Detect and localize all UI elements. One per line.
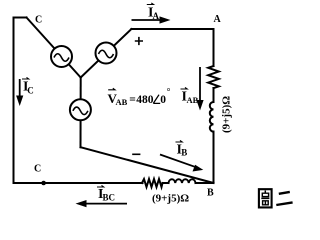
AC source phase bottom xyxy=(70,99,91,120)
wire top border to node A xyxy=(131,28,213,30)
polarity minus sign xyxy=(132,153,140,155)
svg-text:(9+j5)Ω: (9+j5)Ω xyxy=(221,96,233,133)
current arrow I_B xyxy=(160,155,203,172)
wire bottom border from corner to bottom resistor xyxy=(14,182,143,184)
svg-text:C: C xyxy=(27,85,34,95)
AC source phase right xyxy=(96,43,117,64)
svg-text:AB: AB xyxy=(187,95,199,105)
label I_C with vector bar xyxy=(22,77,34,95)
svg-text:C: C xyxy=(34,164,41,175)
svg-text:C: C xyxy=(35,15,42,26)
inductor bottom branch xyxy=(169,179,196,183)
wire diagonal from C corner through phase source to center node xyxy=(27,18,81,78)
svg-text:AB: AB xyxy=(116,97,128,107)
current arrow I_C xyxy=(16,79,23,106)
label I_A with vector bar xyxy=(147,3,160,21)
label V_AB = 480 angle 0 deg xyxy=(108,87,171,108)
inductor right branch xyxy=(210,102,214,132)
angle symbol xyxy=(153,95,160,104)
wire node A down to right resistor xyxy=(213,29,215,66)
wire diagonal from center node through phase source to top bend xyxy=(81,29,132,78)
wire top-left corner and left border xyxy=(14,18,27,184)
svg-text:(9+j5)Ω: (9+j5)Ω xyxy=(152,193,189,205)
current arrow I_BC xyxy=(76,200,128,207)
svg-text:°: ° xyxy=(167,87,171,97)
svg-text:B: B xyxy=(181,148,187,158)
svg-text:A: A xyxy=(153,11,160,21)
wire bottom inductor to node B xyxy=(196,182,214,184)
polarity plus sign xyxy=(135,37,143,45)
wire diagonal from bottom source bend to node B xyxy=(81,147,214,183)
wire neutral from center node down through bottom source xyxy=(80,78,82,148)
caption figure two (CJK drawn as strokes) xyxy=(259,189,293,207)
svg-text:0: 0 xyxy=(160,94,166,106)
svg-text:A: A xyxy=(214,14,222,25)
svg-text:480: 480 xyxy=(136,94,154,106)
wire right inductor to node B xyxy=(213,132,215,183)
current arrow I_AB xyxy=(196,67,203,111)
wire between right resistor and inductor xyxy=(213,88,215,102)
label I_AB with vector bar xyxy=(181,87,199,105)
label I_B with vector bar xyxy=(176,140,188,157)
current arrow I_A xyxy=(132,16,171,23)
label I_BC with vector bar xyxy=(97,185,115,202)
node C junction dot xyxy=(41,181,46,186)
resistor bottom branch (9+j5) xyxy=(142,179,163,187)
svg-text:=: = xyxy=(129,94,136,106)
svg-text:B: B xyxy=(207,188,214,199)
wire between bottom resistor and inductor xyxy=(163,182,169,184)
AC source phase left xyxy=(51,46,72,67)
svg-text:BC: BC xyxy=(103,193,116,203)
resistor right branch (9+j5) xyxy=(208,66,219,88)
